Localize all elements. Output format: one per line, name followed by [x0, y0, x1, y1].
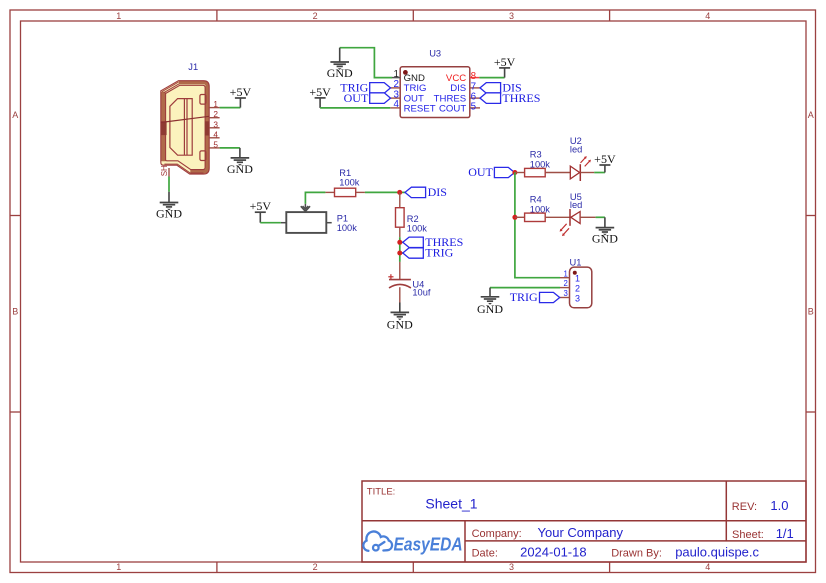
frame zone numbers bottom [116, 562, 710, 572]
wire DIS node to flag [400, 191, 405, 193]
P1 wiper arrow [301, 206, 310, 211]
svg-text:3: 3 [575, 293, 580, 303]
svg-text:1: 1 [575, 274, 580, 284]
frame zone ticks left [10, 216, 21, 413]
connector U1 [570, 257, 592, 307]
J1 tongue line 1 [183, 99, 185, 156]
P1 body [286, 212, 326, 233]
U1 pin1 marker dot [573, 271, 577, 275]
R1 right pin [356, 191, 365, 193]
U3 pin 1 stub [392, 77, 400, 79]
U3 pin 6 stub [470, 97, 480, 99]
EasyEDA logo cloud [363, 531, 392, 550]
U3 body [400, 67, 470, 118]
R4 right pin [545, 216, 570, 218]
J1 outer outline [161, 81, 209, 174]
U5 light arrow 1 [561, 224, 567, 230]
svg-text:paulo.quispe.c: paulo.quispe.c [675, 545, 759, 560]
svg-text:+5V: +5V [309, 85, 331, 99]
U5 anode pin [580, 216, 596, 218]
frame zone ticks right [806, 216, 816, 413]
J1 clip top [200, 95, 206, 105]
svg-text:4: 4 [394, 99, 400, 110]
LED U5 [560, 192, 596, 236]
node TRIG junction [397, 251, 402, 256]
svg-text:2024-01-18: 2024-01-18 [520, 545, 587, 560]
U3 pin1 marker dot [403, 70, 408, 75]
J1 top bevel relief line 1 [162, 82, 179, 92]
U1 pin 2 stub [560, 287, 570, 289]
net flag TRIG at R2 bottom [403, 246, 454, 260]
wire U2 to +5V [594, 172, 605, 174]
svg-text:100k: 100k [339, 178, 360, 188]
R1 body [335, 188, 356, 196]
svg-text:J1: J1 [188, 62, 198, 72]
R3 left pin [515, 172, 525, 174]
wire J1 pin1 to +5V [220, 107, 241, 109]
potentiometer P1 [281, 204, 357, 233]
ground GND at J1 shield [156, 192, 182, 221]
svg-text:1/1: 1/1 [776, 526, 794, 541]
ground GND above U3 [327, 48, 353, 80]
svg-text:1: 1 [116, 562, 121, 572]
ground GND below U4 [387, 303, 413, 332]
svg-text:TITLE:: TITLE: [367, 487, 396, 498]
U4 bottom plate arc [389, 284, 411, 287]
wire TRIG node to flag [400, 252, 403, 254]
U3 pin 7 stub [470, 87, 480, 89]
wire R1 to DIS node [365, 191, 400, 193]
svg-text:REV:: REV: [732, 501, 757, 513]
frame zone ticks bottom [217, 562, 610, 573]
svg-text:U3: U3 [429, 49, 441, 59]
node OUT junction [512, 170, 517, 175]
svg-text:GND: GND [387, 318, 413, 332]
svg-text:3: 3 [213, 119, 218, 129]
net flag OUT at U3 pin3 [344, 91, 391, 105]
title block [362, 481, 806, 562]
svg-text:EasyEDA: EasyEDA [394, 534, 463, 555]
svg-text:Company:: Company: [472, 528, 522, 540]
U4 top pin [399, 262, 401, 280]
R2 bottom pin [399, 227, 401, 237]
wire P1 wiper to R1 [305, 192, 325, 204]
J1 SH pin [168, 168, 170, 177]
svg-text:+5V: +5V [230, 85, 252, 99]
svg-text:1: 1 [116, 11, 121, 21]
net flag OUT at R3 [468, 165, 514, 179]
svg-text:2: 2 [313, 562, 318, 572]
ground GND at J1 pin5 [227, 148, 253, 176]
J1 inner outline [166, 85, 206, 169]
wire +5V to P1 [260, 222, 281, 224]
svg-text:R1: R1 [339, 168, 351, 178]
svg-text:+5V: +5V [594, 152, 616, 166]
net flag TRIG at U1 pin3 [510, 290, 560, 304]
R3 right pin [545, 172, 570, 174]
svg-text:Sheet_1: Sheet_1 [425, 496, 477, 512]
U3 pin 3 stub [391, 97, 401, 99]
ground GND at U5 [592, 217, 618, 245]
svg-text:TRIG: TRIG [425, 246, 453, 260]
svg-text:A: A [808, 110, 814, 120]
frame zone numbers top [116, 11, 710, 21]
svg-text:R3: R3 [530, 150, 542, 160]
power +5V at U3 vcc [494, 55, 516, 78]
J1 pin 5 [209, 147, 219, 149]
svg-text:2: 2 [563, 279, 567, 288]
svg-text:A: A [12, 110, 18, 120]
svg-text:OUT: OUT [468, 165, 493, 179]
ground GND at U1 pin2 [477, 288, 503, 317]
U4 top plate [389, 279, 411, 281]
U2 anode pin [580, 172, 594, 174]
J1 pin 3 [209, 127, 219, 129]
J1 bottom relief line [164, 164, 203, 173]
J1 left contact block [161, 121, 167, 135]
svg-text:Your Company: Your Company [538, 525, 624, 540]
wire U3 pin8 to +5V [479, 77, 504, 79]
node THRES junction [397, 240, 402, 245]
svg-text:TRIG: TRIG [510, 290, 538, 304]
frame zone letters right [808, 110, 814, 316]
resistor R4 [515, 194, 570, 221]
U3 pin 5 stub [470, 107, 480, 109]
svg-text:GND: GND [327, 66, 353, 80]
P1 left pin [281, 222, 286, 224]
P1 wiper stem [304, 204, 306, 208]
svg-text:10uf: 10uf [412, 288, 431, 298]
wire J1 SH to ground [168, 177, 170, 192]
net flag THRES at U3 pin6 [480, 91, 540, 105]
node DIS junction [397, 190, 402, 195]
U3 pin 2 stub [391, 87, 401, 89]
svg-text:5: 5 [471, 101, 477, 112]
J1 body fill [161, 81, 209, 174]
frame zone ticks top [217, 10, 610, 21]
wire U3 pin1 to ground [340, 48, 392, 78]
U5 triangle [571, 212, 580, 224]
svg-text:R4: R4 [530, 194, 542, 204]
R1 left pin [325, 191, 334, 193]
svg-text:RESET: RESET [404, 104, 436, 115]
svg-text:GND: GND [227, 162, 253, 176]
R2 top pin [399, 192, 401, 207]
svg-text:Drawn By:: Drawn By: [611, 548, 662, 560]
power +5V at U3 reset [309, 85, 331, 108]
svg-text:OUT: OUT [344, 91, 369, 105]
U3 pin 8 stub [470, 77, 480, 79]
svg-text:3: 3 [509, 562, 514, 572]
J1 shell band left [161, 92, 166, 162]
wire U5 to ground [596, 216, 605, 218]
svg-text:+5V: +5V [494, 55, 516, 69]
J1 pin 4 [209, 137, 219, 139]
J1 clip bottom [200, 151, 206, 161]
svg-text:3: 3 [563, 289, 567, 298]
net flag DIS at U3 pin7 [480, 81, 522, 95]
svg-text:+5V: +5V [250, 199, 272, 213]
P1 right pin [326, 222, 331, 224]
U4 plus sign [388, 276, 393, 278]
svg-text:4: 4 [705, 11, 710, 21]
svg-text:Sheet:: Sheet: [732, 529, 764, 541]
frame zone letters left [12, 110, 18, 316]
svg-text:SH: SH [160, 165, 169, 176]
svg-text:2: 2 [575, 284, 580, 294]
U2 light arrow 1 [581, 157, 586, 163]
svg-text:R2: R2 [407, 214, 419, 224]
J1 diagonal line [161, 116, 209, 122]
U1 pin 3 stub [560, 297, 570, 299]
wire J1 pin5 to ground [220, 147, 240, 149]
U4 bottom pin [399, 287, 401, 302]
net flag THRES at R2 bottom [403, 235, 464, 249]
power +5V at J1 pin1 [230, 85, 252, 108]
J1 pin 1 [209, 107, 219, 109]
svg-text:Date:: Date: [472, 548, 498, 560]
U2 triangle [570, 166, 579, 179]
connector J1 (mini-USB) [161, 81, 209, 174]
svg-text:B: B [808, 307, 814, 317]
wire THRES node to flag [400, 241, 403, 243]
svg-text:COUT: COUT [439, 104, 466, 115]
J1 top bevel relief line 2 [164, 84, 180, 93]
J1 right contact block [205, 121, 209, 135]
J1 tongue line 2 [186, 99, 188, 156]
svg-text:2: 2 [313, 11, 318, 21]
svg-text:1: 1 [563, 269, 567, 278]
U1 pin 1 stub [560, 277, 570, 279]
R4 body [525, 213, 546, 221]
wire OUT node down to U1 pin1 [515, 173, 560, 278]
svg-text:1: 1 [213, 99, 218, 109]
svg-text:led: led [570, 200, 582, 210]
resistor R3 [515, 150, 570, 177]
svg-text:B: B [12, 307, 18, 317]
wire R2 to THRES/TRIG nodes [399, 237, 401, 262]
R4 left pin [515, 216, 525, 218]
svg-text:2: 2 [213, 109, 218, 119]
svg-text:GND: GND [156, 207, 182, 221]
power +5V at U2 [594, 152, 616, 172]
op-amp/timer U3 (555) [400, 67, 470, 118]
svg-text:5: 5 [213, 139, 218, 149]
U1 body [570, 267, 592, 308]
resistor R1 [325, 168, 365, 196]
R3 body [525, 168, 546, 176]
svg-text:GND: GND [592, 232, 618, 246]
J1 receptacle opening [170, 99, 192, 156]
power +5V at P1 [250, 199, 272, 223]
svg-text:1.0: 1.0 [770, 498, 788, 513]
svg-text:U1: U1 [570, 257, 582, 267]
svg-text:4: 4 [705, 562, 710, 572]
svg-text:DIS: DIS [428, 185, 447, 199]
svg-text:THRES: THRES [502, 91, 540, 105]
LED U2 [570, 136, 594, 181]
U2 light arrow 2 [585, 161, 590, 167]
svg-text:led: led [570, 145, 582, 155]
wire ground to U1 pin2 [490, 287, 560, 289]
U5 light arrow 2 [563, 228, 569, 234]
U3 pin 4 stub [390, 107, 400, 109]
svg-text:100k: 100k [337, 223, 358, 233]
node R4 junction [512, 215, 517, 220]
svg-text:4: 4 [213, 129, 218, 139]
J1 pin 2 [209, 117, 219, 119]
svg-text:P1: P1 [337, 213, 348, 223]
U5 cathode bar [569, 209, 571, 226]
wire +5V to U3 pin4 [320, 107, 390, 109]
U2 cathode bar [579, 164, 581, 181]
capacitor U4 [388, 262, 431, 303]
svg-text:3: 3 [509, 11, 514, 21]
net flag TRIG at U3 pin2 [340, 81, 390, 95]
svg-text:100k: 100k [407, 224, 428, 234]
net flag DIS at R2 top [405, 185, 447, 199]
svg-text:GND: GND [477, 302, 503, 316]
R2 body [396, 208, 405, 228]
resistor R2 [396, 192, 428, 237]
J1 shell band top right [179, 83, 207, 172]
